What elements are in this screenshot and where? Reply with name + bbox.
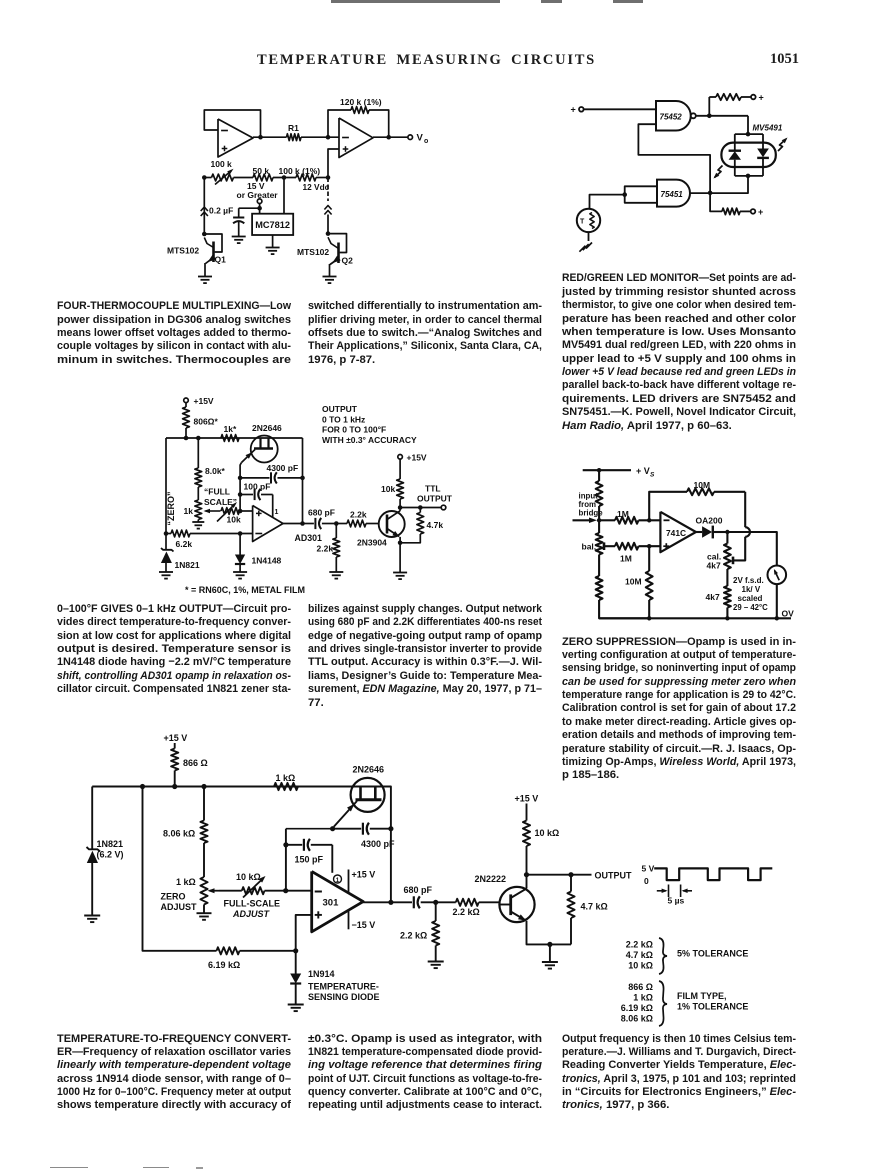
node: 680pF/2.2k junction bbox=[334, 521, 339, 526]
LED red (cathode up) bbox=[734, 134, 736, 150]
diode OA200 bbox=[696, 531, 702, 533]
resistor 8.06 kOhm bbox=[203, 787, 205, 821]
node: A2 output bbox=[386, 135, 391, 140]
svg-text:8.06 kΩ: 8.06 kΩ bbox=[163, 829, 195, 839]
svg-text:* = RN60C, 1%, METAL FILM: * = RN60C, 1%, METAL FILM bbox=[185, 585, 305, 595]
resistor 866 ohm bbox=[174, 743, 176, 749]
wire: wiper row to minus node bbox=[265, 890, 312, 892]
svg-text:FILM TYPE,: FILM TYPE, bbox=[677, 991, 727, 1001]
svg-text:ADJUST: ADJUST bbox=[161, 902, 198, 912]
svg-text:1N4148: 1N4148 bbox=[252, 556, 282, 566]
svg-text:741C: 741C bbox=[666, 528, 686, 538]
brace 5% bbox=[659, 938, 667, 974]
node: pot bottom bbox=[725, 616, 729, 620]
node: 4300pF right bbox=[300, 476, 305, 481]
svg-text:4300 pF: 4300 pF bbox=[361, 839, 395, 849]
wire: emitter row bbox=[527, 921, 572, 945]
op-amp A2 bbox=[339, 118, 373, 158]
bridge resistor upper bbox=[598, 470, 600, 481]
svg-text:AD301: AD301 bbox=[295, 533, 322, 543]
svg-text:50 k: 50 k bbox=[253, 166, 270, 176]
LED green (cathode down) bbox=[762, 134, 764, 149]
resistor 220 ohm to +5V bbox=[708, 97, 710, 116]
svg-text:5% TOLERANCE: 5% TOLERANCE bbox=[677, 949, 748, 959]
svg-text:8.06 kΩ: 8.06 kΩ bbox=[621, 1014, 653, 1024]
wire: thermistor to ground bbox=[588, 232, 590, 241]
terminal: +5V upper bbox=[751, 95, 756, 100]
node: A2 inverting input bbox=[326, 135, 331, 140]
capacitor 4300 pF bbox=[240, 477, 269, 479]
supply pin +15V bbox=[348, 870, 350, 894]
node: emitter bbox=[398, 541, 403, 546]
svg-text:(6.2 V): (6.2 V) bbox=[97, 850, 124, 860]
svg-text:1: 1 bbox=[275, 509, 279, 516]
svg-text:680 pF: 680 pF bbox=[308, 508, 335, 518]
ground: emitter bbox=[393, 572, 407, 574]
svg-text:MTS102: MTS102 bbox=[297, 247, 329, 257]
svg-text:ZERO: ZERO bbox=[161, 892, 186, 902]
capacitor 680 pF bbox=[303, 523, 314, 525]
op-amp 741C bbox=[660, 512, 696, 552]
node: opamp + input bbox=[238, 509, 243, 514]
page number 1051 bbox=[770, 51, 799, 68]
svg-text:+15 V: +15 V bbox=[515, 794, 539, 804]
svg-text:OUTPUT: OUTPUT bbox=[417, 494, 453, 504]
resistor 2.2 kOhm shunt bbox=[435, 902, 437, 921]
node: bridge tap upper bbox=[597, 518, 601, 522]
svg-text:MC7812: MC7812 bbox=[255, 220, 290, 230]
wire: left branch to Q1 bbox=[203, 178, 205, 235]
resistor 50 k bbox=[253, 174, 273, 181]
wire: meter to 0V bbox=[776, 584, 778, 618]
svg-text:6.2k: 6.2k bbox=[176, 539, 193, 549]
feedback 10M bbox=[649, 492, 687, 521]
svg-text:V: V bbox=[417, 133, 424, 144]
svg-text:OA200: OA200 bbox=[696, 516, 723, 526]
wire: B1 exit bbox=[353, 787, 391, 829]
node: bridge top bbox=[597, 468, 601, 472]
wire: 75452 input 2 loop bbox=[638, 124, 710, 193]
svg-text:Q2: Q2 bbox=[342, 256, 354, 266]
ground: 0.2uF bbox=[232, 236, 246, 238]
ground: MC7812 bbox=[272, 235, 274, 248]
top rail bbox=[92, 786, 353, 788]
svg-text:+: + bbox=[571, 105, 576, 115]
node: AD301 output bbox=[300, 521, 305, 526]
svg-text:4.7k: 4.7k bbox=[427, 520, 444, 530]
svg-text:2.2 kΩ: 2.2 kΩ bbox=[453, 907, 480, 917]
wire: 15V to MC7812 input node bbox=[259, 204, 261, 214]
svg-text:5 V: 5 V bbox=[642, 864, 655, 874]
svg-text:1N821: 1N821 bbox=[175, 560, 200, 570]
svg-text:+ V: + V bbox=[636, 466, 650, 476]
svg-text:0 TO 1 kHz: 0 TO 1 kHz bbox=[322, 414, 365, 424]
op-amp AD301 bbox=[253, 506, 283, 542]
svg-text:806Ω*: 806Ω* bbox=[194, 417, 219, 427]
terminal: +15V supply bbox=[184, 398, 189, 403]
6.19k row bbox=[143, 787, 217, 951]
wire: A1 out to R1 bbox=[253, 136, 287, 138]
svg-text:2.2 kΩ: 2.2 kΩ bbox=[626, 940, 653, 950]
node: 1N821 branch bbox=[140, 784, 145, 789]
svg-text:OUTPUT: OUTPUT bbox=[595, 870, 633, 880]
svg-text:10 kΩ: 10 kΩ bbox=[236, 872, 261, 882]
gate 75452 bbox=[656, 101, 691, 131]
ground: thermistor (slanted) bbox=[586, 243, 592, 249]
wire: A2 output to Vo bbox=[373, 136, 408, 138]
node: output/resistor junction bbox=[707, 114, 712, 119]
resistor 2.2k shunt bbox=[335, 524, 337, 539]
svg-text:2V f.s.d.: 2V f.s.d. bbox=[733, 576, 764, 585]
svg-text:WITH ±0.3° ACCURACY: WITH ±0.3° ACCURACY bbox=[322, 435, 417, 445]
resistor 6.2k bbox=[171, 530, 190, 537]
svg-text:0: 0 bbox=[644, 876, 649, 886]
svg-text:6.19 kΩ: 6.19 kΩ bbox=[208, 960, 240, 970]
svg-text:2.2k: 2.2k bbox=[350, 510, 367, 520]
ground: 2.2k shunt bbox=[329, 571, 343, 573]
diode 1N914 temperature sensor bbox=[295, 951, 297, 974]
svg-text:4.7 kΩ: 4.7 kΩ bbox=[581, 902, 608, 912]
regulator MC7812 bbox=[252, 214, 293, 235]
node: Q1 collector-base tie bbox=[202, 232, 207, 237]
svg-text:10 kΩ: 10 kΩ bbox=[535, 828, 560, 838]
svg-text:100 pF: 100 pF bbox=[244, 482, 271, 492]
svg-text:0.2 µF: 0.2 µF bbox=[209, 206, 233, 216]
svg-text:10 kΩ: 10 kΩ bbox=[628, 961, 653, 971]
svg-text:“ZERO”: “ZERO” bbox=[166, 491, 176, 525]
resistor R1 bbox=[287, 134, 302, 141]
resistor 1M to inverting input bbox=[599, 519, 615, 521]
svg-text:866 Ω: 866 Ω bbox=[628, 982, 653, 992]
resistor 6.19 kOhm bbox=[217, 947, 240, 954]
ground: 1N821 bbox=[159, 571, 173, 573]
resistor 100 ohm to +5V lower bbox=[710, 193, 722, 211]
node: 4.7k tap bbox=[568, 872, 573, 877]
svg-text:1N914: 1N914 bbox=[308, 969, 335, 979]
supply pin -15V bbox=[348, 911, 350, 930]
ground: 1N914 bbox=[288, 1004, 304, 1006]
terminal +15V (3904) bbox=[398, 455, 403, 460]
wire: 50k junction to MC7812 output bbox=[283, 178, 285, 214]
node: collector 2222 bbox=[524, 872, 529, 877]
light arrow lower-left bbox=[715, 166, 723, 178]
terminal: 15 V supply bbox=[257, 199, 262, 204]
rheostat 10 kOhm FULL-SCALE bbox=[219, 890, 242, 892]
page top edge scan marks bbox=[331, 0, 500, 3]
transistor Q2 MTS102 bbox=[328, 234, 347, 253]
wire: 75452 output bbox=[696, 115, 748, 117]
svg-text:4300 pF: 4300 pF bbox=[267, 463, 299, 473]
svg-text:10k: 10k bbox=[227, 515, 241, 525]
node: input bus tap bbox=[622, 192, 627, 197]
wire: A2 noninverting input bbox=[328, 149, 339, 178]
resistor 100 k (1%) bbox=[296, 174, 316, 181]
brace 1% bbox=[659, 981, 667, 1026]
current chevrons left bbox=[201, 207, 208, 211]
wire: collector row bbox=[527, 874, 592, 876]
wire: emitter column down bbox=[285, 829, 287, 891]
svg-text:1k*: 1k* bbox=[224, 424, 237, 434]
node: 806 junction bbox=[184, 436, 189, 441]
gate 75451 bbox=[657, 180, 690, 207]
current chevrons right bbox=[324, 206, 331, 210]
wire: output to meter bbox=[727, 532, 776, 566]
node: 75451 output junction bbox=[708, 191, 713, 196]
resistor 10 kOhm bbox=[526, 804, 528, 821]
resistor 120 k (1%) feedback bbox=[328, 110, 351, 137]
page bottom edge scan marks bbox=[50, 1167, 88, 1169]
svg-text:1M: 1M bbox=[620, 554, 632, 564]
meter M bbox=[768, 566, 787, 585]
svg-text:+15 V: +15 V bbox=[164, 733, 188, 743]
UJT 2N2646 bbox=[251, 436, 278, 463]
ground: 1N4148 bbox=[233, 571, 247, 573]
svg-text:10M: 10M bbox=[625, 577, 642, 587]
wire: 75451 output bbox=[690, 192, 710, 194]
svg-text:1 kΩ: 1 kΩ bbox=[276, 773, 296, 783]
svg-text:FOR 0 TO 100°F: FOR 0 TO 100°F bbox=[322, 425, 386, 435]
wire: emitter bbox=[399, 537, 401, 573]
svg-text:+15V: +15V bbox=[407, 453, 427, 463]
resistor 8.0k* bbox=[197, 438, 199, 468]
ground: zero pot bbox=[197, 912, 212, 914]
svg-text:1% TOLERANCE: 1% TOLERANCE bbox=[677, 1002, 748, 1012]
svg-text:T: T bbox=[580, 218, 585, 225]
svg-text:1k: 1k bbox=[184, 506, 194, 516]
svg-text:866 Ω: 866 Ω bbox=[183, 758, 208, 768]
svg-text:301: 301 bbox=[323, 898, 340, 909]
svg-text:2.2 kΩ: 2.2 kΩ bbox=[400, 931, 427, 941]
emitter column bbox=[239, 478, 241, 511]
node: output/B1 bbox=[388, 900, 393, 905]
capacitor 100 pF bbox=[238, 492, 243, 497]
wire: pot to 50 k bbox=[234, 177, 254, 179]
ground: emitter 2222 bbox=[542, 961, 558, 963]
ground: Q1 emitter bbox=[198, 276, 212, 278]
node: minus rail left bbox=[164, 531, 169, 536]
svg-text:29 – 42°C: 29 – 42°C bbox=[733, 603, 768, 612]
node: A1 output bbox=[258, 135, 263, 140]
thermistor T bbox=[577, 209, 600, 232]
wire: output bbox=[363, 901, 412, 903]
node: meter bottom bbox=[775, 616, 779, 620]
node: LED top bus bbox=[735, 133, 763, 135]
svg-text:1: 1 bbox=[336, 877, 340, 884]
capacitor 0.2 uF bbox=[239, 207, 260, 209]
potentiometer bal bbox=[596, 533, 603, 555]
svg-text:6.19 kΩ: 6.19 kΩ bbox=[621, 1003, 653, 1013]
potentiometer 1 kOhm ZERO ADJUST bbox=[200, 877, 207, 905]
resistor 1 kOhm rail bbox=[274, 783, 298, 790]
wire: collector bbox=[399, 508, 401, 511]
resistor 10M to 0V bbox=[648, 546, 650, 571]
wire: + to 75452 input 1 bbox=[584, 108, 656, 110]
feedback vertical with hop bbox=[744, 492, 746, 527]
running head title bbox=[257, 52, 596, 69]
svg-text:2N2646: 2N2646 bbox=[353, 765, 385, 775]
wire: LED bottom to node bbox=[710, 176, 748, 193]
node: 150pF tap bbox=[283, 842, 288, 847]
wire: 75451 input bus bbox=[625, 186, 657, 203]
potentiometer 100 k bbox=[204, 177, 211, 179]
resistor 4k7 lower bbox=[726, 569, 728, 586]
node: 8.06k branch bbox=[201, 784, 206, 789]
node: minus input bbox=[283, 888, 288, 893]
left wire to 1N821 bbox=[91, 787, 93, 850]
svg-text:+: + bbox=[758, 207, 763, 217]
node: 12 Vdc rail end bbox=[326, 175, 331, 180]
LED MV5491 package bbox=[721, 143, 775, 167]
resistor 2.2 kOhm series bbox=[436, 901, 456, 903]
svg-text:10M: 10M bbox=[694, 480, 711, 490]
node: 4300 right bbox=[388, 826, 393, 831]
svg-text:or Greater: or Greater bbox=[237, 190, 279, 200]
svg-text:bal.: bal. bbox=[582, 542, 597, 552]
node: 8k branch bbox=[196, 436, 201, 441]
ground: 2.2k shunt bbox=[428, 961, 444, 963]
svg-text:OV: OV bbox=[782, 609, 795, 619]
svg-text:TEMPERATURE-: TEMPERATURE- bbox=[308, 982, 379, 992]
svg-text:Q1: Q1 bbox=[215, 255, 227, 265]
svg-text:“FULL: “FULL bbox=[204, 487, 230, 497]
node: MC7812 input bbox=[257, 206, 262, 211]
zener 1N821 (6.2V) bbox=[87, 847, 101, 852]
capacitor 4300 pF (osc) bbox=[333, 828, 362, 830]
resistor 4.7k bbox=[419, 508, 421, 513]
wire: to 12Vdc node bbox=[316, 177, 328, 179]
svg-text:680 pF: 680 pF bbox=[404, 885, 433, 895]
svg-text:4.7 kΩ: 4.7 kΩ bbox=[626, 950, 653, 960]
svg-text:TTL: TTL bbox=[425, 484, 441, 494]
ground: 1N821 bbox=[84, 915, 100, 917]
light arrow upper-right bbox=[778, 139, 786, 151]
svg-text:150 pF: 150 pF bbox=[295, 855, 324, 865]
svg-text:1 kΩ: 1 kΩ bbox=[176, 877, 196, 887]
svg-text:8.0k*: 8.0k* bbox=[205, 466, 226, 476]
svg-text:2N3904: 2N3904 bbox=[357, 538, 387, 548]
svg-text:FULL-SCALE: FULL-SCALE bbox=[224, 899, 281, 909]
terminal TTL OUTPUT bbox=[441, 505, 446, 510]
resistor 806 ohm bbox=[185, 403, 187, 407]
op-amp A1 (unity follower) bbox=[218, 119, 253, 157]
potentiometer cal 4k7 bbox=[726, 532, 728, 544]
svg-text:S: S bbox=[650, 472, 655, 479]
svg-text:SENSING DIODE: SENSING DIODE bbox=[308, 992, 380, 1002]
svg-text:MV5491: MV5491 bbox=[753, 124, 783, 133]
node: plus/diode junction bbox=[293, 948, 298, 953]
node: 4300pF left bbox=[238, 476, 243, 481]
svg-text:120 k (1%): 120 k (1%) bbox=[340, 97, 382, 107]
node: 50k/100k junction bbox=[282, 175, 287, 180]
resistor 10k collector bbox=[399, 459, 401, 479]
wire: collector to TTL out bbox=[400, 507, 441, 509]
transistor 2N2222 bbox=[499, 887, 534, 922]
svg-text:1k/ V: 1k/ V bbox=[742, 585, 761, 594]
svg-text:R1: R1 bbox=[288, 123, 299, 133]
rheostat 10k FULL SCALE bbox=[221, 508, 240, 515]
svg-text:ADJUST: ADJUST bbox=[232, 909, 271, 919]
potentiometer 1k ZERO bbox=[197, 487, 199, 500]
transistor Q1 MTS102 bbox=[204, 234, 222, 252]
top rail with corner bbox=[166, 437, 303, 439]
svg-text:OUTPUT: OUTPUT bbox=[322, 404, 358, 414]
wire: plus input bbox=[296, 915, 312, 951]
svg-text:5 µs: 5 µs bbox=[668, 896, 685, 906]
resistor 1M to noninverting bbox=[615, 543, 639, 550]
resistor 1k* bbox=[221, 435, 239, 442]
node: Q2 collector-base tie bbox=[326, 231, 331, 236]
input arrow bbox=[573, 519, 594, 521]
pin 1 circle bbox=[334, 875, 342, 883]
svg-text:MTS102: MTS102 bbox=[167, 246, 199, 256]
svg-text:2.2k: 2.2k bbox=[317, 544, 334, 554]
node: lower rail left bbox=[202, 175, 207, 180]
capacitor 150 pF bbox=[286, 844, 302, 846]
svg-text:+15 V: +15 V bbox=[352, 870, 376, 880]
node: 680/2.2k junction bbox=[433, 900, 438, 905]
wire: A1 feedback loop bbox=[204, 110, 260, 137]
svg-text:scaled: scaled bbox=[738, 594, 763, 603]
svg-text:10k: 10k bbox=[381, 484, 395, 494]
wire: R1 to A2 minus node bbox=[301, 136, 339, 138]
node: diode output bbox=[725, 530, 729, 534]
diode 1N4148 bbox=[239, 534, 241, 555]
ground: 1k pot bbox=[197, 520, 199, 523]
ground: Q2 emitter bbox=[323, 276, 337, 278]
svg-text:−15 V: −15 V bbox=[352, 920, 376, 930]
wire: output vertical bbox=[302, 438, 304, 524]
node: inverting input bbox=[647, 518, 651, 522]
output bubble 75452 bbox=[691, 113, 696, 118]
svg-text:100 k: 100 k bbox=[211, 159, 233, 169]
capacitor 680 pF (osc) bbox=[413, 896, 415, 908]
node: 1N4148 junction bbox=[238, 531, 243, 536]
svg-text:100 k (1%): 100 k (1%) bbox=[279, 166, 321, 176]
UJT 2N2646 (osc) bbox=[351, 778, 385, 812]
wire: minus rail bbox=[166, 533, 171, 535]
rail 0V bbox=[599, 617, 791, 619]
node: emitter ground tap bbox=[547, 942, 552, 947]
zener 1N821 bbox=[165, 534, 167, 550]
svg-text:1 kΩ: 1 kΩ bbox=[633, 993, 653, 1003]
node: 866 junction bbox=[172, 784, 177, 789]
svg-text:75451: 75451 bbox=[661, 190, 684, 199]
resistor 4.7 kOhm bbox=[570, 875, 572, 892]
svg-text:1N821: 1N821 bbox=[97, 839, 124, 849]
dimension 5us bbox=[668, 885, 670, 898]
node: 10M bottom bbox=[647, 616, 651, 620]
svg-text:4k7: 4k7 bbox=[707, 561, 721, 571]
node: TTL junction bbox=[418, 505, 423, 510]
node: collector bbox=[398, 505, 403, 510]
svg-text:+15V: +15V bbox=[194, 396, 214, 406]
wire: right branch dashed bbox=[327, 178, 329, 202]
node: LED bottom bus bbox=[735, 175, 763, 177]
wire: thermistor to inputs bbox=[590, 195, 625, 209]
op-amp 301 bbox=[312, 871, 364, 931]
wire: to LED top bbox=[747, 116, 749, 134]
terminal Vo bbox=[408, 135, 413, 140]
svg-text:+: + bbox=[759, 93, 764, 103]
svg-text:12 Vdc: 12 Vdc bbox=[303, 182, 330, 192]
terminal: +5V lower bbox=[751, 209, 756, 214]
node: emitter/4300 junction bbox=[286, 827, 334, 829]
svg-text:4k7: 4k7 bbox=[706, 592, 720, 602]
top rail +Vs bbox=[583, 469, 631, 471]
svg-text:1M: 1M bbox=[617, 509, 629, 519]
svg-text:o: o bbox=[424, 138, 428, 145]
svg-text:bridge: bridge bbox=[579, 509, 604, 518]
